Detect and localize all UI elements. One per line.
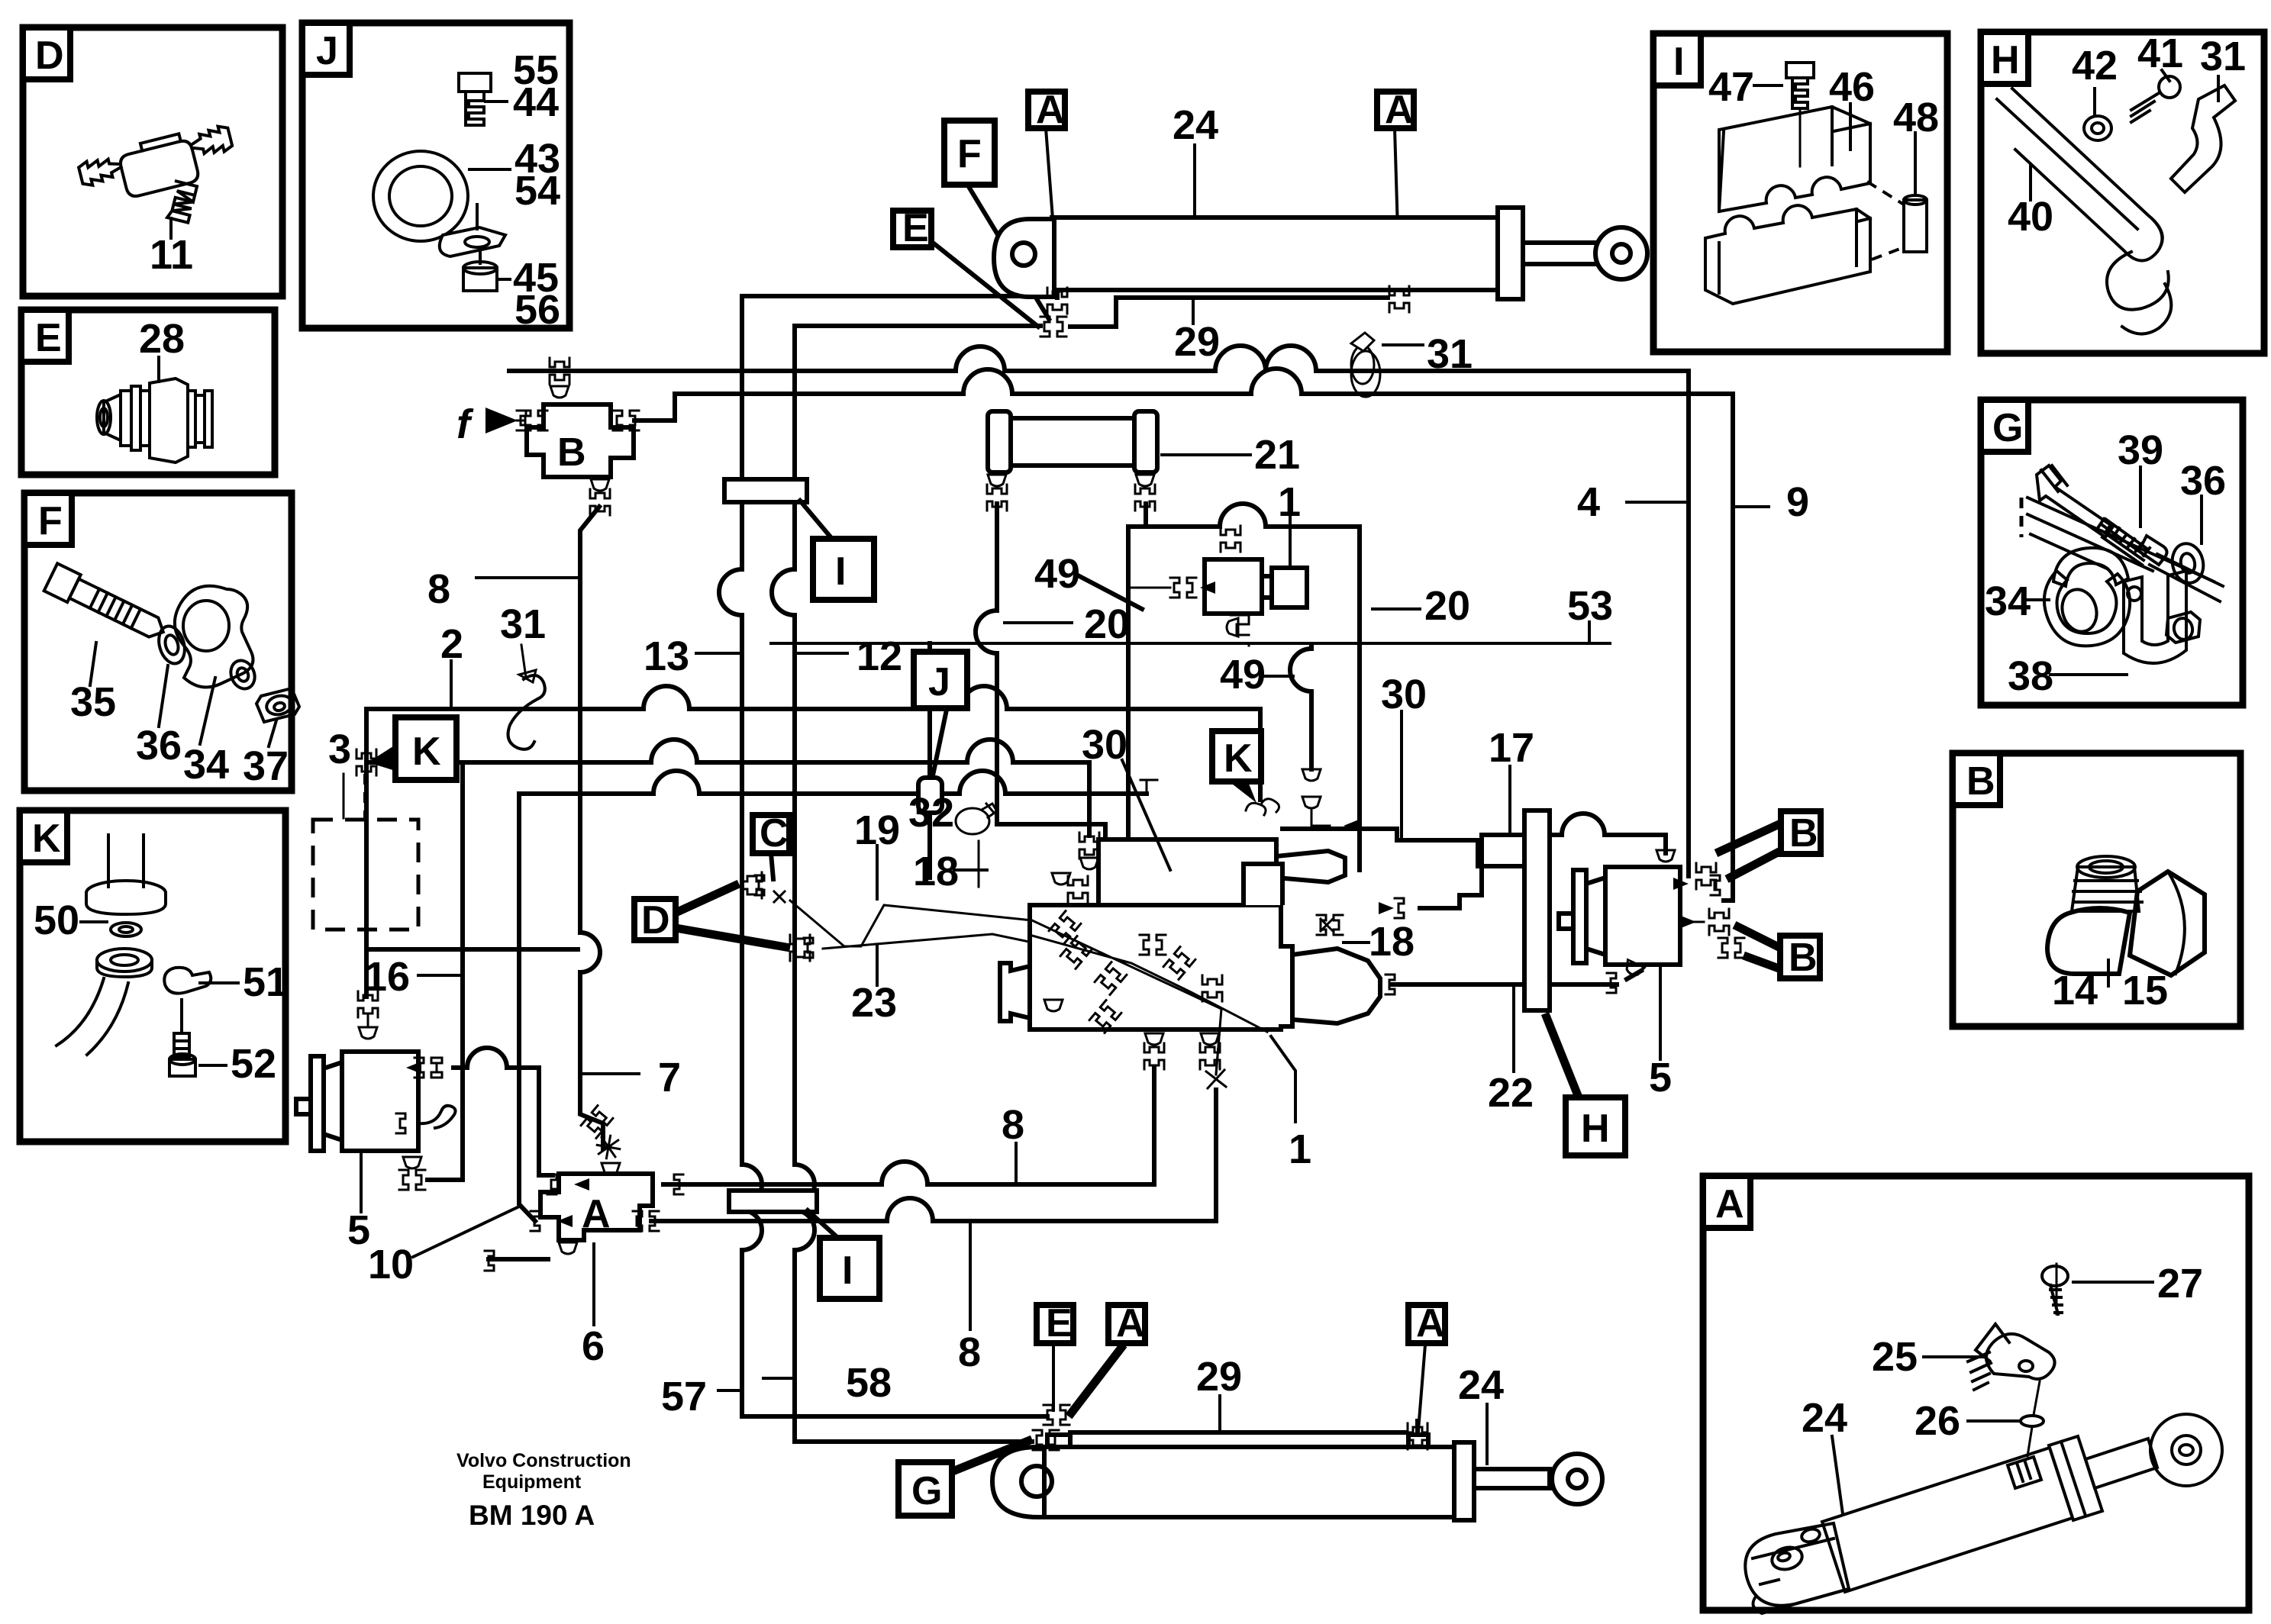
svg-text:2: 2 [440, 621, 463, 667]
leader 5 left [360, 1143, 363, 1212]
leader 7 dash [582, 1072, 639, 1075]
wire: line 53 [771, 642, 1610, 645]
wire: line 12 vertical from E port [772, 326, 1040, 1442]
valve main body [1030, 905, 1292, 1029]
svg-text:57: 57 [661, 1374, 707, 1419]
fitting below accumulator left [988, 475, 1006, 486]
wire: right pump bottom link [1627, 971, 1641, 979]
svg-text:27: 27 [2157, 1261, 2203, 1307]
wire: hose 29 top cylinder [1070, 298, 1388, 327]
fittings at valve top left cluster [1052, 873, 1070, 884]
leader E bottom [1052, 1345, 1055, 1410]
svg-text:C: C [760, 811, 789, 855]
svg-text:Volvo Construction: Volvo Construction [456, 1450, 631, 1471]
elbow fitting end of line [1140, 780, 1157, 794]
upper bullet [1276, 851, 1345, 882]
svg-text:A: A [1116, 1301, 1145, 1345]
wire: line 49 right vertical [1290, 645, 1311, 769]
leader 20 right dash [1373, 607, 1420, 611]
svg-text:6: 6 [582, 1323, 605, 1369]
bar [2027, 498, 2214, 582]
svg-text:32: 32 [908, 790, 954, 836]
svg-text:K: K [1224, 736, 1253, 781]
nipple fitting 28 [97, 379, 212, 462]
barrel [1822, 1448, 2073, 1592]
fitting left pump right [406, 1062, 421, 1074]
svg-text:22: 22 [1488, 1070, 1534, 1116]
leader B thick 2b [1744, 955, 1789, 972]
svg-text:I: I [835, 549, 846, 594]
leader A bottom1 [1069, 1345, 1124, 1416]
leader 11 [169, 218, 173, 238]
svg-text:36: 36 [136, 723, 182, 768]
fittings lower cylinder ports [1044, 1405, 1069, 1425]
fitting at valve bottom right for line 22 [1386, 975, 1395, 994]
callout box E frame [21, 310, 275, 475]
wire: cross line to valve A feed [366, 947, 578, 952]
svg-text:B: B [1789, 811, 1818, 855]
ring 32 [956, 804, 997, 834]
leader G tag [953, 1439, 1032, 1471]
leader D tag thick upper [676, 884, 739, 913]
svg-text:49: 49 [1220, 652, 1266, 698]
leader 49 left [1079, 576, 1142, 609]
leaders [1832, 1282, 2153, 1514]
leader A bottom2 [1418, 1345, 1425, 1430]
wire: line 8 (B block to valve A) [580, 507, 603, 1149]
thin hoses over valve [1032, 920, 1267, 1075]
callout box H frame [1981, 32, 2264, 353]
svg-text:B: B [1966, 759, 1995, 804]
leaders [1754, 85, 1915, 194]
collar [2049, 1436, 2102, 1520]
svg-text:H: H [1581, 1107, 1610, 1151]
bolt 52 [169, 1000, 195, 1076]
fittings left pump top stack [358, 991, 378, 1017]
svg-text:42: 42 [2072, 43, 2118, 89]
K curl fitting at valve top [1246, 799, 1279, 815]
leader 6 [592, 1244, 595, 1325]
bolt 35 [44, 563, 170, 646]
fitting above solenoid [1221, 526, 1240, 552]
callout box B frame [1953, 753, 2240, 1026]
leader 17 tick [1508, 766, 1511, 832]
svg-text:29: 29 [1174, 319, 1220, 365]
leader 58 dash [763, 1377, 795, 1380]
wire: J connector drop [927, 643, 932, 878]
fittings right pump right side lower [1709, 909, 1729, 935]
thin hose 19 [790, 901, 1221, 1075]
wire: line 13 vertical from top cylinder left port [719, 282, 1057, 1416]
leader 30 right [1400, 711, 1403, 840]
leader 31 left [521, 645, 526, 678]
fitting right pump bottom [1623, 960, 1644, 978]
fitting below accumulator right [1136, 475, 1154, 486]
clevis head [992, 1447, 1044, 1517]
wire: line 16 vertical [427, 762, 463, 1180]
svg-text:24: 24 [1173, 102, 1218, 148]
leaders [90, 643, 276, 746]
rod eye [2150, 1414, 2222, 1486]
fitting bell above valve B [550, 386, 569, 398]
leader A top-left [1046, 128, 1056, 269]
svg-text:31: 31 [1427, 331, 1473, 377]
leader I lower [808, 1210, 841, 1241]
fitting E below left port [1040, 317, 1066, 337]
leader 1 bottom [1271, 1036, 1295, 1122]
fittings right pump right side upper [1673, 878, 1689, 890]
svg-text:BM 190 A: BM 190 A [469, 1500, 595, 1531]
leaders [2107, 960, 2110, 986]
fitting valve A right lower [633, 1211, 659, 1231]
svg-text:10: 10 [368, 1242, 414, 1287]
nut 37 [256, 688, 299, 722]
fitting left of solenoid [1170, 578, 1196, 598]
arrow f [485, 408, 518, 433]
svg-text:48: 48 [1893, 95, 1939, 140]
svg-text:Equipment: Equipment [482, 1471, 582, 1493]
leader 20 left dash [1005, 621, 1072, 624]
wire: line 2 vertical to left pump [364, 709, 369, 997]
callout box A frame [1703, 1176, 2249, 1610]
leader 24 top [1193, 145, 1196, 216]
wire: second supply line (to line 9) [634, 369, 1733, 901]
svg-text:E: E [902, 206, 929, 250]
leader 9 dash [1733, 505, 1769, 508]
fitting below valve B [590, 489, 610, 515]
fitting at valve right cone [1395, 898, 1404, 918]
leader 13 dash [696, 652, 739, 655]
svg-text:A: A [1385, 88, 1414, 132]
bolt 55/44 [459, 73, 491, 125]
svg-text:31: 31 [500, 601, 546, 647]
fitting left pump bottom [403, 1157, 421, 1168]
svg-text:36: 36 [2180, 458, 2226, 504]
svg-text:29: 29 [1196, 1354, 1242, 1400]
rod [2086, 1439, 2157, 1488]
leader 8 mid tick [1015, 1143, 1018, 1181]
plate upper I [724, 479, 807, 502]
svg-text:19: 19 [854, 807, 900, 853]
svg-text:9: 9 [1786, 479, 1809, 525]
svg-text:11: 11 [150, 232, 193, 278]
wire: main supply line top (to line 4) [509, 346, 1689, 876]
callout box K frame [20, 810, 285, 1142]
svg-text:37: 37 [243, 743, 289, 789]
flange 50 area [86, 881, 166, 977]
svg-text:G: G [1992, 406, 2023, 450]
left motor cone [1000, 963, 1030, 1021]
callout box F frame [24, 493, 292, 791]
svg-text:52: 52 [231, 1041, 276, 1087]
C D fitting cluster upper [742, 872, 762, 898]
cylinder end cap [1498, 208, 1523, 299]
svg-text:H: H [1991, 38, 2020, 82]
svg-text:18: 18 [913, 849, 959, 894]
clamp upper 46 [1719, 107, 1870, 211]
leader 8 top dash [476, 576, 579, 579]
svg-text:16: 16 [364, 954, 410, 1000]
svg-text:K: K [412, 730, 441, 774]
wire: line 7 from left pump to valve A [453, 1048, 553, 1175]
fitting top cylinder right port [1389, 286, 1409, 312]
svg-text:40: 40 [2008, 194, 2053, 240]
leader 8 low tick [969, 1224, 972, 1329]
piston rod [1523, 243, 1597, 264]
leader K right tag [1229, 780, 1256, 803]
J connector [918, 778, 942, 813]
leader 21 dash [1162, 453, 1250, 456]
svg-text:24: 24 [1458, 1362, 1504, 1408]
svg-text:3: 3 [328, 727, 351, 772]
leader D tag thick lower [676, 928, 790, 948]
svg-text:47: 47 [1708, 64, 1754, 110]
svg-text:49: 49 [1034, 551, 1080, 597]
svg-text:K: K [32, 817, 61, 861]
hose clamp 31 top [1351, 333, 1380, 397]
tilt cylinder clevis [1745, 1414, 2222, 1613]
leader 30 left [1122, 760, 1170, 870]
port boss on barrel [2008, 1457, 2041, 1488]
svg-text:39: 39 [2118, 427, 2163, 473]
dashed drop from fitting 3 [363, 774, 366, 820]
leader 1 top [1289, 517, 1292, 565]
leader H tag [1545, 1013, 1579, 1097]
fitting left pump curved [396, 1113, 405, 1133]
throttle fitting above valve A [581, 1106, 613, 1139]
nut 42 [2084, 116, 2111, 140]
svg-text:1: 1 [1278, 479, 1301, 525]
leader 24 bottom tick [1486, 1404, 1489, 1464]
washer 36 [155, 623, 189, 667]
wire: line 2 horizontal [366, 686, 1260, 800]
svg-text:F: F [38, 499, 63, 543]
svg-text:E: E [35, 316, 62, 360]
bolt 41 [2131, 76, 2180, 122]
svg-text:30: 30 [1381, 672, 1427, 717]
cylinder barrel 24 [1052, 217, 1519, 290]
svg-text:54: 54 [515, 168, 560, 214]
svg-text:20: 20 [1424, 583, 1470, 629]
wire: 20 loop [1128, 504, 1360, 870]
port blocks on barrel top [1047, 1435, 1070, 1447]
leader 5 right [1659, 966, 1662, 1059]
banjo fitting 25 [1968, 1324, 2055, 1390]
svg-text:30: 30 [1082, 722, 1127, 768]
stub below ring 32 [978, 841, 980, 887]
svg-text:7: 7 [658, 1055, 681, 1100]
callout box J frame [302, 23, 569, 328]
svg-text:I: I [842, 1249, 853, 1293]
rod [1474, 1469, 1550, 1488]
fitting valve B right port [613, 411, 639, 430]
fittings below valve 1 [1145, 1033, 1163, 1045]
wire: line from fitting 3 to valve (K line) [366, 739, 1089, 836]
svg-text:18: 18 [1369, 919, 1415, 965]
bolt 39 [2037, 466, 2167, 565]
svg-text:B: B [557, 430, 586, 475]
fitting at f arrow [517, 411, 526, 430]
cylinder clevis head [994, 219, 1054, 297]
fittings valve A left top [547, 1174, 556, 1194]
svg-text:58: 58 [846, 1360, 892, 1406]
dashed box 3 [313, 820, 418, 930]
T-fitting 11 [76, 122, 247, 245]
cylinder barrel [1044, 1447, 1454, 1517]
leader 53 tick [1588, 622, 1591, 643]
leader B thick 1b [1727, 847, 1788, 879]
wire: valve to plate 17 upper [1282, 829, 1524, 866]
fitting bell below valve B [591, 479, 609, 491]
svg-text:8: 8 [958, 1329, 981, 1375]
leader B thick 2a [1734, 925, 1783, 949]
U clamp 38 [2124, 571, 2200, 663]
svg-text:1: 1 [1289, 1126, 1311, 1172]
wire: line to valve 1 bottom x-fitting [651, 1090, 1216, 1221]
leader B thick 1a [1716, 823, 1782, 853]
C D fitting cluster lower [790, 935, 810, 961]
fittings right pump top [1656, 850, 1675, 862]
fitting on K line at valve [1079, 833, 1099, 859]
wire: line to valve A lower port [519, 771, 1147, 794]
leader 31 top dash [1383, 343, 1423, 346]
callout box G frame [1981, 400, 2243, 705]
leader 22 [1512, 986, 1515, 1071]
svg-text:F: F [957, 132, 982, 176]
svg-text:15: 15 [2122, 968, 2168, 1013]
svg-text:20: 20 [1084, 601, 1130, 647]
clevis pivot hole [1012, 243, 1035, 266]
valve upper section [1098, 839, 1276, 907]
svg-text:5: 5 [1649, 1055, 1672, 1100]
leader 19 tick [876, 846, 879, 899]
svg-text:41: 41 [2137, 31, 2183, 76]
leader 18 right dash [1344, 941, 1369, 944]
clip 31 [2171, 85, 2235, 192]
fittings valve A left lower [531, 1211, 540, 1231]
svg-text:A: A [1715, 1182, 1744, 1226]
leader E top [933, 243, 1038, 327]
wire: short stub at valve A bottom [489, 1257, 548, 1261]
fitting cross on supply line [550, 358, 569, 384]
fitting top cylinder left port [1047, 288, 1067, 314]
wire: plate to right pump top [1482, 814, 1666, 853]
leader C tag [771, 853, 773, 879]
clamp 51 [164, 968, 211, 994]
svg-text:5: 5 [347, 1207, 370, 1253]
leaders [81, 922, 238, 1065]
svg-text:46: 46 [1829, 64, 1875, 110]
svg-text:28: 28 [139, 316, 185, 362]
assembly line [2027, 1264, 2056, 1456]
svg-text:A: A [582, 1192, 611, 1236]
svg-text:50: 50 [34, 897, 79, 943]
wire: valve to right pump bottom line 22 [1392, 982, 1617, 987]
callout box I frame [1653, 34, 1947, 352]
svg-text:25: 25 [1872, 1334, 1918, 1380]
leader 10 [413, 1206, 521, 1257]
leader 49 right dash [1261, 675, 1293, 678]
clamp ring 43/54 [373, 151, 505, 256]
fitting below solenoid [1231, 615, 1249, 646]
fitting valve A right top [674, 1174, 683, 1194]
fitting X right of valve (18) [1317, 915, 1343, 935]
svg-text:I: I [1673, 40, 1684, 84]
svg-text:56: 56 [515, 287, 560, 333]
clamp lower [1705, 205, 1870, 304]
leader 23 tick [876, 946, 879, 985]
svg-text:D: D [641, 898, 670, 942]
svg-text:34: 34 [183, 742, 229, 788]
leader 2 tick [450, 661, 453, 709]
fittings on line 49 right [1302, 769, 1321, 781]
leader I upper [800, 501, 832, 539]
leader J tag [933, 710, 947, 775]
leader F top [968, 185, 1049, 319]
svg-text:J: J [928, 660, 950, 704]
hose hook 31 left [508, 675, 545, 749]
leader 28 [157, 357, 160, 382]
svg-text:E: E [1046, 1301, 1073, 1345]
svg-text:8: 8 [427, 566, 450, 612]
svg-text:34: 34 [1985, 578, 2031, 624]
svg-text:26: 26 [1915, 1398, 1960, 1444]
svg-text:B: B [1789, 936, 1818, 980]
svg-text:35: 35 [70, 679, 116, 725]
svg-text:12: 12 [856, 633, 902, 679]
valve top-left step (K step) [1244, 864, 1282, 905]
fitting valve B left port [521, 411, 547, 430]
svg-text:44: 44 [513, 79, 559, 125]
fitting valve A bottom [559, 1242, 577, 1254]
svg-text:23: 23 [851, 980, 897, 1026]
solenoid valve 1 assembly [1205, 559, 1262, 614]
strap 40 [1997, 89, 2163, 261]
washer 36 [2169, 540, 2207, 585]
leader 4 dash [1627, 501, 1689, 504]
svg-text:8: 8 [1002, 1102, 1024, 1148]
pipe top [108, 835, 144, 887]
wire: hose 29 lower cylinder [1070, 1421, 1418, 1432]
spacer 48 [1904, 195, 1927, 252]
hook 34 [2044, 548, 2130, 646]
svg-text:24: 24 [1802, 1395, 1847, 1441]
rod eye [1552, 1454, 1602, 1504]
washer 26 [2021, 1416, 2044, 1426]
right cone [1292, 949, 1380, 1023]
fitting 3 on K line [356, 749, 376, 775]
callout box D frame [23, 27, 282, 296]
leader 29 bottom tick [1218, 1396, 1221, 1432]
svg-text:A: A [1416, 1301, 1445, 1345]
svg-text:J: J [316, 29, 338, 73]
plate lower I [729, 1191, 817, 1212]
svg-text:13: 13 [644, 633, 689, 679]
svg-text:21: 21 [1254, 432, 1300, 478]
svg-text:38: 38 [2008, 653, 2053, 699]
wire: line 8 mid (valve A to valve 1) [663, 1067, 1154, 1184]
pipe bend lower [56, 978, 128, 1055]
leaders [2027, 467, 2202, 675]
leader 3 tick [343, 774, 345, 818]
svg-text:A: A [1036, 88, 1065, 132]
svg-text:D: D [35, 34, 64, 78]
leader 18 left dash [954, 868, 987, 872]
svg-text:4: 4 [1577, 479, 1600, 525]
thin hose 23 [823, 934, 1267, 1032]
leaders [469, 101, 510, 279]
bolt 27 [2042, 1266, 2068, 1314]
